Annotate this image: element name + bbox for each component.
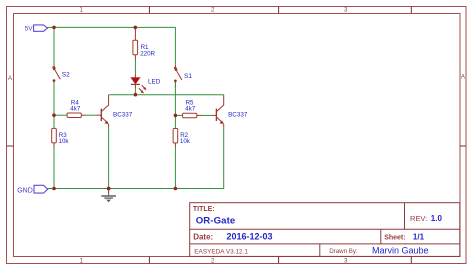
junction ground symbol / Q1 emitter: [107, 187, 111, 191]
junction R2-GND rail: [174, 187, 178, 191]
wire R2 to GND rail: [174, 148, 176, 189]
svg-text:2: 2: [211, 6, 215, 13]
wire S1 to node C (crosses collector wire, no dot): [174, 82, 176, 115]
resistor R1: [133, 40, 138, 59]
node B junction S2/R4/R3: [52, 113, 56, 117]
svg-text:1: 1: [80, 257, 84, 264]
svg-text:BC337: BC337: [113, 112, 133, 119]
svg-text:10k: 10k: [59, 138, 70, 145]
wire collector net horizontal: [109, 94, 224, 96]
svg-text:10k: 10k: [180, 138, 191, 145]
transistor Q2 BC337: [212, 95, 224, 128]
net flag GND: [17, 185, 48, 194]
junction 5V-S2: [52, 26, 56, 30]
svg-text:BC337: BC337: [228, 112, 248, 119]
svg-text:Drawn By:: Drawn By:: [329, 248, 358, 255]
wire Q2 emitter down and left to GND rail: [175, 128, 223, 189]
svg-text:3: 3: [344, 6, 348, 13]
svg-text:3: 3: [344, 257, 348, 264]
svg-text:EASYEDA V3.12.1: EASYEDA V3.12.1: [194, 248, 248, 255]
svg-text:S1: S1: [184, 73, 192, 80]
title block (decorative): [190, 203, 460, 257]
svg-text:S2: S2: [62, 71, 70, 78]
switch S1: [174, 65, 182, 88]
junction R3-GND rail: [52, 187, 56, 191]
transistor Q1 BC337: [97, 95, 109, 128]
power flag 5V: [25, 25, 48, 33]
svg-text:TITLE:: TITLE:: [193, 206, 215, 213]
svg-text:Sheet:: Sheet:: [384, 234, 405, 241]
switch S2: [52, 66, 60, 88]
LED: [131, 75, 147, 94]
svg-text:5V: 5V: [25, 25, 34, 32]
wire R1 to LED: [134, 60, 136, 75]
wire GND rail: [48, 188, 176, 190]
svg-text:Date:: Date:: [193, 233, 213, 242]
wire 5V horizontal top: [47, 27, 175, 64]
svg-text:Marvin Gaube: Marvin Gaube: [372, 246, 429, 256]
svg-text:1/1: 1/1: [413, 233, 425, 242]
resistor R5: [183, 113, 202, 118]
wire R4 to Q1 base: [86, 114, 97, 116]
resistor R4: [67, 113, 86, 118]
ground symbol: [101, 189, 116, 203]
wire S2 to node B: [53, 82, 55, 115]
wire R5 to Q2 base: [202, 114, 212, 116]
wire node C to R5: [175, 114, 182, 116]
svg-text:2016-12-03: 2016-12-03: [227, 231, 273, 241]
svg-text:4k7: 4k7: [185, 105, 196, 112]
svg-text:220R: 220R: [140, 50, 155, 57]
svg-text:2: 2: [211, 257, 215, 264]
wire R3 to GND rail: [53, 148, 55, 189]
svg-text:1.0: 1.0: [431, 214, 443, 223]
svg-text:OR-Gate: OR-Gate: [196, 216, 236, 227]
node C junction S1/R5/R2: [174, 114, 178, 118]
wire Q1 emitter down: [108, 128, 110, 189]
wire R1 top lead: [134, 27, 136, 40]
svg-text:REV:: REV:: [410, 214, 427, 223]
svg-text:4k7: 4k7: [70, 106, 81, 113]
svg-text:LED: LED: [148, 78, 161, 85]
resistor R2: [173, 115, 178, 147]
resistor R3: [52, 115, 57, 147]
wire LED to collector net: [134, 88, 136, 95]
svg-text:1: 1: [80, 6, 84, 13]
junction LED-collector net: [134, 93, 138, 97]
wire node B to R4: [54, 114, 67, 116]
svg-text:GND: GND: [17, 188, 33, 195]
junction 5V-R1: [134, 26, 138, 30]
wire 5V down to S2: [53, 27, 55, 66]
